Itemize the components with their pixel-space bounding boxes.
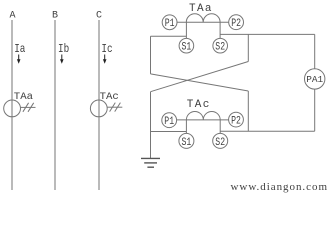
wire phase A bus bbox=[11, 20, 13, 190]
terminal P2 of TAc bbox=[229, 112, 244, 127]
wire diagonal cross (right-top to left-bottom) bbox=[151, 62, 249, 92]
wire left rail lower (to ground) bbox=[150, 92, 152, 159]
svg-text:P1: P1 bbox=[164, 116, 174, 128]
wire left rail upper bbox=[150, 36, 152, 74]
terminal S1 of TAa bbox=[179, 38, 194, 53]
svg-text:Ic: Ic bbox=[101, 42, 112, 56]
wire S1 stub of TAc bbox=[185, 120, 187, 133]
wire phase C bus bbox=[98, 20, 100, 190]
wire phase B bus bbox=[54, 20, 56, 190]
wire from S2 TAc to ammeter rail bbox=[220, 130, 315, 132]
current arrow Ib bbox=[60, 55, 64, 64]
svg-text:S1: S1 bbox=[182, 137, 192, 149]
terminal S2 of TAa bbox=[213, 38, 228, 53]
svg-text:PA1: PA1 bbox=[306, 74, 323, 85]
wire right mid vertical upper bbox=[247, 34, 249, 61]
svg-text:www.diangon.com: www.diangon.com bbox=[231, 181, 328, 193]
svg-text:C: C bbox=[96, 11, 102, 22]
terminal P1 of TAa bbox=[162, 15, 177, 30]
svg-text:P2: P2 bbox=[231, 18, 241, 30]
wire from S1 TAc to left rail bbox=[151, 131, 187, 133]
wire right mid vertical lower bbox=[247, 91, 249, 131]
svg-text:TAa: TAa bbox=[189, 3, 212, 15]
terminal P2 of TAa bbox=[229, 15, 244, 30]
terminal S2 of TAc bbox=[213, 133, 228, 149]
transformer TAc winding bbox=[177, 111, 229, 119]
terminal S1 of TAc bbox=[179, 133, 194, 149]
wire S1 stub of TAa bbox=[185, 22, 187, 38]
ammeter PA1 bbox=[305, 69, 325, 89]
svg-text:A: A bbox=[9, 11, 15, 22]
wire from S1 TAa to left rail bbox=[151, 35, 187, 37]
wire ammeter rail upper bbox=[314, 34, 316, 68]
svg-text:S2: S2 bbox=[215, 42, 225, 54]
svg-text:S2: S2 bbox=[215, 137, 225, 149]
current arrow Ic bbox=[103, 55, 107, 64]
wire S2 stub of TAc bbox=[219, 120, 221, 133]
ground bbox=[141, 158, 160, 167]
CT TAa symbol (circle on phase A) bbox=[4, 100, 36, 117]
svg-text:TAc: TAc bbox=[187, 99, 210, 111]
wire from S2 TAa to ammeter rail bbox=[220, 33, 315, 35]
terminal P1 of TAc bbox=[162, 113, 177, 128]
wire ammeter rail lower bbox=[314, 89, 316, 131]
wire diagonal cross (left-top to right-bottom) bbox=[151, 74, 249, 91]
svg-text:P1: P1 bbox=[165, 18, 175, 30]
svg-text:Ia: Ia bbox=[14, 42, 25, 56]
wire S2 stub of TAa bbox=[219, 22, 221, 38]
svg-text:B: B bbox=[52, 11, 58, 22]
svg-text:S1: S1 bbox=[182, 42, 192, 54]
transformer TAa winding bbox=[177, 14, 229, 22]
CT TAc symbol (circle on phase C) bbox=[90, 100, 122, 117]
current arrow Ia bbox=[17, 55, 21, 64]
svg-text:P2: P2 bbox=[231, 116, 241, 128]
svg-text:Ib: Ib bbox=[58, 42, 69, 56]
